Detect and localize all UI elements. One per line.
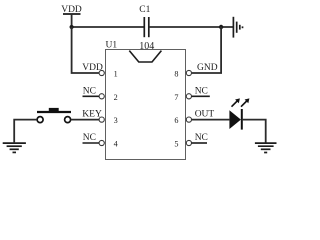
svg-text:KEY: KEY xyxy=(82,110,102,120)
svg-text:104: 104 xyxy=(139,41,154,52)
svg-text:2: 2 xyxy=(114,93,118,102)
svg-text:GND: GND xyxy=(197,63,218,73)
wire button to pin 3 xyxy=(71,119,99,121)
svg-text:NC: NC xyxy=(195,133,208,143)
pin 2 NC xyxy=(83,86,118,102)
capacitor C1 xyxy=(139,5,150,37)
svg-text:4: 4 xyxy=(114,140,118,149)
pushbutton S1 xyxy=(37,108,71,123)
svg-text:NC: NC xyxy=(83,86,96,96)
wire LED to ground xyxy=(242,120,266,143)
pin 3 KEY xyxy=(82,110,117,126)
IC U1 body xyxy=(106,41,186,160)
wire VDD rail to C1 xyxy=(72,26,145,28)
junction node at GND rail xyxy=(219,25,223,29)
value label 104 xyxy=(139,41,154,52)
LED D1 xyxy=(229,98,249,129)
pin 8 GND xyxy=(174,63,217,79)
svg-text:NC: NC xyxy=(83,133,96,143)
svg-text:8: 8 xyxy=(174,70,178,79)
pin 5 NC xyxy=(174,133,208,149)
wire VDD down to pin 1 xyxy=(72,27,100,73)
svg-text:1: 1 xyxy=(114,70,118,79)
pin 7 NC xyxy=(174,86,209,102)
ground (top right, rotated) xyxy=(233,17,242,38)
power symbol VDD xyxy=(61,5,82,27)
wire pin 6 to LED xyxy=(192,119,230,121)
pin 6 OUT xyxy=(174,110,214,126)
wire C1 to ground xyxy=(149,26,233,28)
svg-text:OUT: OUT xyxy=(195,110,215,120)
svg-text:C1: C1 xyxy=(139,5,150,15)
pin 1 xyxy=(82,63,117,79)
svg-text:7: 7 xyxy=(174,93,178,102)
junction node at VDD xyxy=(70,25,74,29)
svg-text:VDD: VDD xyxy=(82,63,103,73)
svg-text:5: 5 xyxy=(174,140,178,149)
svg-text:3: 3 xyxy=(114,116,118,125)
svg-text:6: 6 xyxy=(174,116,178,125)
wire button to ground xyxy=(14,120,37,143)
ground (bottom left) xyxy=(3,143,26,152)
wire GND rail down to pin 8 xyxy=(192,27,222,73)
pin 4 NC xyxy=(83,133,118,149)
svg-text:NC: NC xyxy=(195,86,208,96)
ground (bottom right) xyxy=(255,143,277,152)
